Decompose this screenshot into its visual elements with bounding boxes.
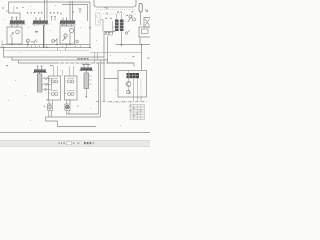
bottom wire level y114: [66, 63, 99, 114]
faint box right of J3: [96, 13, 101, 25]
node label a: [6, 65, 8, 66]
contact circle right of K2: [76, 40, 79, 43]
relay contact S2: [52, 39, 58, 45]
label right of J4: [50, 64, 53, 67]
connector J3 (hatched bar): [59, 18, 76, 25]
pin stubs between J2 and J3: [51, 17, 57, 21]
second feed wire top: [62, 5, 88, 22]
bottom full-width line: [0, 132, 150, 134]
noise suppressor column B: [84, 70, 89, 88]
wire connector J3 pins from top: [70, 1, 73, 21]
table text dots: [129, 106, 141, 117]
noise suppressor column A: [37, 72, 42, 92]
connector J4 (hatched bar): [33, 70, 47, 73]
wire below fuse: [140, 12, 142, 25]
labels above bus: [26, 41, 37, 42]
ground stub below table: [121, 31, 123, 44]
label near box top: [133, 56, 135, 57]
wire top horizontal feed: [9, 1, 91, 3]
gauge symbol A1: [51, 78, 58, 83]
extra junction dots: [19, 44, 67, 48]
label row small text y7: [2, 7, 24, 12]
bottom outer staircase wire: [46, 117, 97, 127]
wires inside control box: [134, 78, 138, 97]
PSON dark block: [127, 73, 140, 78]
wire joining resistors: [48, 79, 52, 90]
dash-dot bottom border of big box: [96, 101, 147, 103]
wire top to transistor Q1: [128, 71, 130, 91]
relay contact circles top right: [128, 15, 136, 22]
label row pin numbers y12: [14, 6, 62, 14]
staircase wire 2: [12, 57, 108, 60]
pin caps above J1: [11, 16, 18, 18]
X terminal box right edge: [144, 18, 151, 28]
bus to right edge: [116, 44, 151, 46]
relay box K1: [7, 24, 22, 45]
glyphs along leader lines: [105, 7, 134, 19]
junction dot: [141, 44, 143, 46]
bottom wire level y117: [46, 60, 101, 117]
diode D1: [42, 88, 48, 90]
left edge vertical wire: [1, 41, 3, 48]
dotted label line: [125, 21, 130, 23]
contact right of terminal table: [125, 32, 127, 34]
gauge symbol B1: [67, 78, 74, 83]
corner top right box: [104, 32, 115, 35]
dotted leader line 2: [103, 13, 136, 15]
connector J4 pins: [37, 66, 43, 70]
gauge symbol B2: [67, 91, 74, 96]
short verticals right of center: [95, 53, 98, 64]
control box right: [118, 71, 147, 98]
connector J2 (hatched bar): [32, 18, 49, 25]
wire from table left: [100, 20, 104, 35]
dotted leader line 1: [96, 9, 136, 11]
arrow up on long wire: [89, 26, 91, 28]
junction dots on bus: [3, 44, 91, 48]
thick wire stub: [43, 25, 45, 48]
signal table grid: [130, 105, 145, 120]
top right long rounded box: [94, 0, 136, 7]
dense label over bus: [78, 58, 89, 59]
wire long vertical drop right: [89, 2, 91, 48]
tick marks above bus: [58, 48, 66, 50]
unit input stub wires: [54, 66, 74, 76]
marks inside faint box: [97, 15, 99, 23]
tick marks on leaders: [106, 7, 108, 15]
wire below column B: [85, 89, 87, 99]
faint dotted caption above table: [108, 101, 144, 104]
wire into box top: [134, 45, 142, 71]
thermistor symbol: [127, 90, 131, 94]
speckle marks scattered: [4, 5, 126, 126]
wire top-left branch: [9, 2, 21, 21]
pin numbers left inside sub-boxes: [49, 81, 66, 94]
text blob near box corner: [105, 32, 113, 33]
connector J1 (hatched bar): [9, 17, 26, 24]
stubs above terminal table: [117, 15, 122, 20]
wire box bottom stub: [134, 97, 142, 102]
connector block right edge: [139, 27, 151, 37]
gauge symbol A2: [51, 91, 58, 96]
status bar dark buttons: [84, 142, 91, 144]
status bar glyphs: [59, 142, 80, 145]
motor M2: [65, 99, 79, 113]
wire from block down: [139, 37, 141, 45]
faint bus y50.5: [4, 50, 89, 52]
cap line above J5 pins: [82, 64, 91, 66]
small label right edge: [148, 58, 150, 59]
motor M1: [44, 99, 53, 113]
status bar strip: [0, 141, 150, 147]
resistor R2: [42, 83, 52, 85]
link wire y52.5: [90, 52, 142, 54]
relay contact S1: [27, 31, 38, 45]
transistor Q1: [126, 82, 131, 87]
wire horizontal into box left: [104, 63, 134, 79]
capacitor C1: [79, 9, 82, 14]
big-box verticals right: [104, 34, 108, 102]
tiny wire numbers between buses: [27, 46, 81, 47]
wire connector J2 pins from top: [45, 0, 48, 21]
label dots under connectors: [11, 24, 72, 27]
wire left of terminal table: [108, 21, 115, 35]
fuse F1 capsule: [139, 4, 142, 13]
bus line upper y44.5: [2, 44, 90, 46]
small arrow glyph right: [145, 9, 148, 12]
small circle label near J3: [72, 11, 74, 13]
stubs right of column B: [89, 76, 92, 84]
unit sub-box B: [65, 76, 78, 100]
staircase wire 1: [4, 48, 105, 58]
status bar x mark: [93, 142, 95, 144]
wire vertical to terminal table: [102, 20, 104, 32]
unit sub-box A: [49, 76, 61, 100]
dark terminal table top-right: [115, 20, 124, 32]
connector J5 (hatched bar): [80, 68, 94, 71]
small marks left of contact: [126, 15, 128, 16]
bus line lower y47.5: [0, 47, 90, 49]
staircase wire 3: [19, 60, 56, 63]
relay box K2: [60, 24, 75, 45]
connector J5 pins: [83, 63, 89, 68]
resistor R1: [42, 77, 52, 79]
